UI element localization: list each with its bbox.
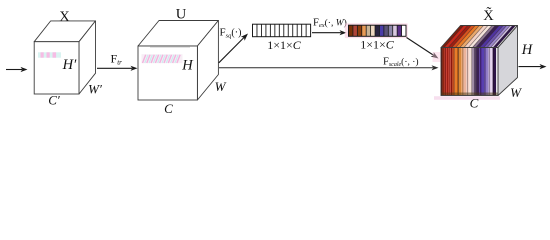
svg-text:W: W xyxy=(510,85,522,100)
wire scale diagonal arrow xyxy=(407,38,439,59)
decorative jpeg artifact band cube1 (not labelled further) xyxy=(38,52,61,57)
wire Fsq arrow xyxy=(219,34,248,63)
svg-text:Fscale(·, ·): Fscale(·, ·) xyxy=(383,56,419,68)
svg-text:W: W xyxy=(215,79,227,94)
svg-text:H: H xyxy=(521,42,534,58)
decorative jpeg artifact band cubeU xyxy=(142,47,191,63)
wire Fex arrow xyxy=(312,30,347,35)
svg-text:Fex(·, W): Fex(·, W) xyxy=(313,17,347,29)
wire Ftr arrow xyxy=(97,66,138,71)
svg-text:X: X xyxy=(59,9,70,25)
svg-text:H′: H′ xyxy=(62,57,77,73)
wire input arrow xyxy=(6,67,28,72)
wire Fscale arrow xyxy=(219,65,439,70)
svg-text:U: U xyxy=(176,6,187,22)
svg-text:1×1×C: 1×1×C xyxy=(360,37,395,51)
svg-text:C: C xyxy=(164,101,173,116)
node X-tilde output cube (recalibrated, coloured stripes) xyxy=(441,26,518,96)
svg-text:X̃: X̃ xyxy=(483,7,494,24)
svg-text:H: H xyxy=(181,57,194,73)
svg-text:1×1×C: 1×1×C xyxy=(267,38,302,52)
svg-text:Fsq(·): Fsq(·) xyxy=(220,27,242,40)
svg-text:W′: W′ xyxy=(88,82,102,97)
svg-text:C′: C′ xyxy=(48,93,60,108)
node excitation vector bar coloured 1x1xC xyxy=(349,25,407,36)
node U feature map cube xyxy=(138,21,218,101)
svg-text:C: C xyxy=(470,96,479,111)
node squeeze vector bar 1x1xC xyxy=(253,24,311,37)
decorative pink band under output cube xyxy=(433,52,501,100)
wire output arrow xyxy=(519,64,547,69)
decorative pink halo bar2 xyxy=(345,23,408,38)
node X input tensor cube xyxy=(34,21,95,94)
